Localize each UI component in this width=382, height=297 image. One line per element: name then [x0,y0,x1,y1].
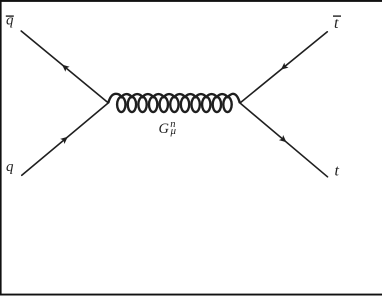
arrow on qbar line (points up-left) [60,62,70,72]
svg-text:q: q [6,159,14,175]
gluon propagator spine [108,94,240,103]
arrow on tbar line (points down-left) [279,63,289,73]
svg-text:q: q [6,12,14,28]
wire: top line t from right vertex [240,103,328,177]
arrow on q line (points up-right) [60,134,70,144]
border frame bottom [0,294,382,296]
gluon coil loops [117,97,232,112]
border frame top [0,0,382,2]
label qbar [6,12,14,28]
wire: quark line q to left vertex [22,103,109,175]
arrow on t line (points down-right) [279,135,289,145]
label G mu n (gluon) [159,119,177,137]
border frame left [0,0,2,296]
wire: antitop line tbar from right vertex [240,32,327,103]
svg-text:t: t [334,15,339,32]
wire: antiquark line qbar to left vertex [21,31,108,103]
svg-text:μ: μ [170,125,177,137]
svg-text:t: t [335,163,340,180]
label tbar [333,15,341,32]
svg-text:G: G [159,121,170,137]
